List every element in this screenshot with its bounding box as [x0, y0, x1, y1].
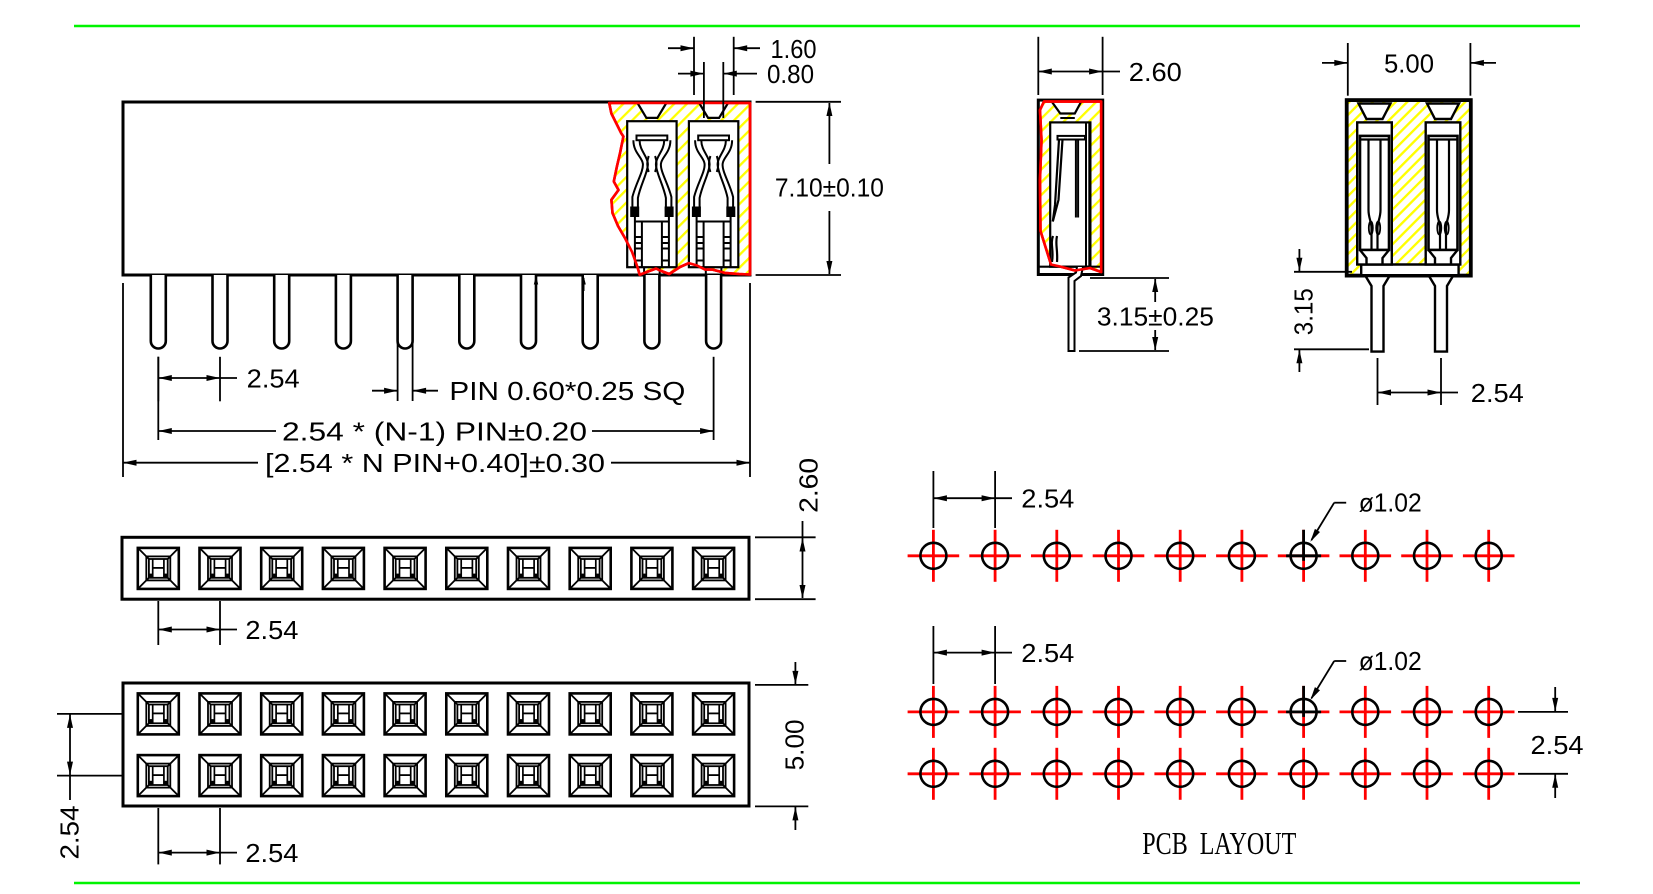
- contact insert row 1 col 2 (double row): [200, 693, 241, 734]
- contact insert row 1 col 8 (double row): [570, 693, 611, 734]
- contact cavity of pin 9 (section): [627, 103, 676, 275]
- single row housing bottom view: [122, 537, 749, 599]
- contact insert row 1 col 1 (double row): [138, 693, 179, 734]
- PCB hole 7 (single row): [1278, 530, 1330, 582]
- dim overall length extension lines: [122, 283, 124, 477]
- PCB hole row 1 col 8 (double row): [1340, 686, 1392, 738]
- green top border line: [74, 25, 1580, 28]
- contact insert row 1 col 3 (double row): [261, 693, 302, 734]
- svg-text:2.54 * (N-1) PIN±0.20: 2.54 * (N-1) PIN±0.20: [282, 416, 587, 446]
- PCB hole 9 (single row): [1401, 530, 1453, 582]
- contact insert row 2 col 4 (double row): [323, 755, 364, 796]
- dim 2.54 hole pitch extension lines (double row): [932, 626, 934, 684]
- dim 2.54 row spacing (double row): [1554, 687, 1556, 711]
- pin 1 (front view): [151, 275, 166, 349]
- crush rib arrow left: [535, 278, 537, 291]
- svg-text:3.15: 3.15: [1289, 288, 1319, 335]
- section cut hatched region: [609, 103, 750, 275]
- dim 5.00 extension lines: [755, 684, 808, 686]
- end view contact cavity 2: [1426, 104, 1461, 265]
- PCB hole 2 (single row): [969, 530, 1021, 582]
- dim 2.60 extension lines (side): [1037, 37, 1039, 95]
- contact insert 5 (single row): [385, 548, 426, 589]
- dim 7.10±0.10: [828, 103, 830, 164]
- side view contact: [1058, 136, 1086, 140]
- dim 2.54 hole pitch extension lines (single row): [932, 471, 934, 528]
- green bottom border line: [74, 882, 1580, 885]
- PCB hole row 1 col 4 (double row): [1093, 686, 1145, 738]
- dim 3.15 pin length (end view): [1298, 249, 1300, 271]
- svg-text:ø1.02: ø1.02: [1359, 488, 1422, 518]
- contact insert row 2 col 9 (double row): [631, 755, 672, 796]
- contact insert 7 (single row): [508, 548, 549, 589]
- housing body side view: [1038, 100, 1102, 274]
- dim 2.54 pin pitch: [158, 377, 237, 379]
- contact insert row 2 col 3 (double row): [261, 755, 302, 796]
- contact insert row 2 col 8 (double row): [570, 755, 611, 796]
- PCB hole row 2 col 4 (double row): [1093, 748, 1145, 800]
- pin 5 (front view): [398, 275, 413, 349]
- contact insert 10 (single row): [693, 548, 734, 589]
- contact cavity of pin 10 (section): [689, 103, 738, 275]
- dim 2.54 double row pitch extension lines: [157, 808, 159, 864]
- svg-text:7.10±0.10: 7.10±0.10: [775, 172, 884, 202]
- dim 1.60 extension lines: [693, 37, 695, 95]
- contact insert row 1 col 5 (double row): [385, 693, 426, 734]
- PCB hole 1 (single row): [908, 530, 960, 582]
- pin 2 (front view): [213, 275, 228, 349]
- housing body front view: [123, 102, 750, 275]
- dim 2.54 row spacing: [69, 714, 71, 800]
- PCB hole row 2 col 9 (double row): [1401, 748, 1453, 800]
- dim 5.00 body width (end view): [1322, 62, 1348, 64]
- double row housing bottom view: [123, 683, 749, 806]
- svg-text:2.60: 2.60: [1129, 57, 1182, 87]
- dim 2.54 pin spacing (end view): [1378, 392, 1459, 394]
- svg-text:5.00: 5.00: [779, 719, 809, 770]
- contact insert row 2 col 5 (double row): [385, 755, 426, 796]
- PCB hole row 1 col 5 (double row): [1154, 686, 1206, 738]
- pin 8 (front view): [583, 275, 598, 349]
- PCB hole row 2 col 2 (double row): [969, 748, 1021, 800]
- dim [2.54*N PIN+0.40]±0.30: [123, 462, 258, 464]
- PCB hole row 2 col 7 (double row): [1278, 748, 1330, 800]
- svg-text:2.54: 2.54: [245, 838, 298, 868]
- svg-text:3.15±0.25: 3.15±0.25: [1097, 301, 1214, 331]
- dim 2.54 pin pitch extension lines: [157, 357, 159, 402]
- pin 4 (front view): [336, 275, 351, 349]
- contact insert row 1 col 7 (double row): [508, 693, 549, 734]
- PCB hole 4 (single row): [1093, 530, 1145, 582]
- contact insert row 1 col 4 (double row): [323, 693, 364, 734]
- svg-text:PIN 0.60*0.25 SQ: PIN 0.60*0.25 SQ: [449, 376, 685, 406]
- contact insert row 2 col 6 (double row): [446, 755, 487, 796]
- side view entry funnel: [1052, 103, 1081, 114]
- PCB hole row 1 col 9 (double row): [1401, 686, 1453, 738]
- dim 2.60 extension lines: [755, 536, 816, 538]
- pin 3 (front view): [274, 275, 289, 349]
- dim 2.54*(N-1) PIN extension lines: [157, 357, 159, 440]
- dim 7.10±0.10 extension lines: [756, 101, 841, 103]
- side view solder pin: [1069, 267, 1084, 351]
- dim 3.15 extension lines (end view): [1294, 271, 1352, 273]
- svg-text:2.54: 2.54: [55, 806, 85, 860]
- PCB hole row 1 col 10 (double row): [1463, 686, 1515, 738]
- dim PIN 0.60*0.25 SQ: [372, 390, 398, 392]
- PCB hole row 1 col 3 (double row): [1031, 686, 1083, 738]
- dim 2.60 row width: [802, 521, 804, 598]
- dim 3.15±0.25 extension lines: [1090, 277, 1169, 279]
- svg-text:2.54: 2.54: [1531, 730, 1584, 760]
- contact insert row 2 col 10 (double row): [693, 755, 734, 796]
- dim 2.54 row spacing extension lines (double row): [1518, 711, 1568, 713]
- dim 2.54 hole pitch (single row): [933, 497, 1012, 499]
- dim 5.00 extension lines (end view): [1347, 43, 1349, 96]
- svg-text:0.80: 0.80: [767, 59, 814, 89]
- svg-text:2.54: 2.54: [1021, 484, 1074, 514]
- contact insert 8 (single row): [570, 548, 611, 589]
- PCB hole row 1 col 2 (double row): [969, 686, 1021, 738]
- svg-text:PCB LAYOUT: PCB LAYOUT: [1142, 825, 1296, 861]
- side view red cut boundary (overlay): [1040, 102, 1101, 272]
- end view body (full section): [1347, 100, 1471, 276]
- hole diameter leader (single row): [1334, 502, 1346, 504]
- pin 7 (front view): [521, 275, 536, 349]
- dim 1.60: [668, 47, 694, 49]
- contact insert 4 (single row): [323, 548, 364, 589]
- dim 5.00 body width: [794, 662, 796, 684]
- svg-text:[2.54 * N PIN+0.40]±0.30: [2.54 * N PIN+0.40]±0.30: [265, 448, 605, 478]
- pin 6 (front view): [459, 275, 474, 349]
- PCB hole 10 (single row): [1463, 530, 1515, 582]
- svg-text:2.54: 2.54: [1021, 638, 1074, 668]
- side view section hatched region: [1040, 102, 1101, 272]
- crush rib arrow right: [583, 278, 585, 291]
- pin 9 (front view): [644, 275, 659, 349]
- contact insert row 1 col 9 (double row): [631, 693, 672, 734]
- end view pin 2: [1429, 276, 1453, 352]
- PCB hole row 1 col 7 (double row): [1278, 686, 1330, 738]
- contact insert row 1 col 6 (double row): [446, 693, 487, 734]
- dim 2.54 extension lines (end view): [1377, 358, 1379, 405]
- dim 2.54 hole pitch (double row): [933, 652, 1012, 654]
- dim 0.80: [678, 73, 704, 75]
- contact insert row 2 col 2 (double row): [200, 755, 241, 796]
- PCB hole row 2 col 5 (double row): [1154, 748, 1206, 800]
- PCB hole 5 (single row): [1154, 530, 1206, 582]
- PCB hole 3 (single row): [1031, 530, 1083, 582]
- PCB hole row 2 col 1 (double row): [908, 748, 960, 800]
- svg-text:2.54: 2.54: [247, 364, 300, 394]
- contact insert row 2 col 7 (double row): [508, 755, 549, 796]
- dim 2.54 double row pitch: [158, 852, 237, 854]
- contact insert 2 (single row): [200, 548, 241, 589]
- side view contact cavity: [1050, 122, 1090, 266]
- PCB hole row 2 col 10 (double row): [1463, 748, 1515, 800]
- dim 2.54*(N-1) PIN±0.20: [158, 430, 276, 432]
- contact insert 3 (single row): [261, 548, 302, 589]
- contact insert 1 (single row): [138, 548, 179, 589]
- dim PIN 0.60*0.25 SQ extension lines: [397, 274, 399, 401]
- PCB hole row 2 col 8 (double row): [1340, 748, 1392, 800]
- svg-text:5.00: 5.00: [1384, 48, 1434, 78]
- PCB hole row 2 col 6 (double row): [1216, 748, 1268, 800]
- end view contact cavity 1: [1357, 104, 1392, 265]
- svg-text:2.54: 2.54: [1471, 378, 1524, 408]
- dim 2.60 body thickness: [1038, 71, 1120, 73]
- PCB hole row 1 col 6 (double row): [1216, 686, 1268, 738]
- dim 2.54 single row extension lines: [157, 601, 159, 645]
- PCB hole row 2 col 3 (double row): [1031, 748, 1083, 800]
- pin 10 (front view): [706, 275, 721, 349]
- end view bottom recess: [1361, 265, 1458, 275]
- dim 2.54 single row: [158, 629, 237, 631]
- section cut red boundary (overlay): [609, 103, 750, 275]
- PCB hole 6 (single row): [1216, 530, 1268, 582]
- contact insert row 1 col 10 (double row): [693, 693, 734, 734]
- PCB hole 8 (single row): [1340, 530, 1392, 582]
- dim 2.54 row spacing extension lines: [57, 713, 123, 715]
- svg-text:2.54: 2.54: [245, 615, 298, 645]
- svg-text:2.60: 2.60: [794, 458, 824, 513]
- dim 3.15±0.25 pin length: [1154, 279, 1156, 302]
- dim 0.80 extension lines: [703, 62, 705, 118]
- side view base line: [1038, 266, 1102, 268]
- end view pin 1: [1366, 276, 1390, 352]
- contact insert 6 (single row): [446, 548, 487, 589]
- svg-text:ø1.02: ø1.02: [1359, 646, 1422, 676]
- contact insert 9 (single row): [631, 548, 672, 589]
- hole diameter leader (double row): [1334, 660, 1346, 662]
- PCB hole row 1 col 1 (double row): [908, 686, 960, 738]
- contact insert row 2 col 1 (double row): [138, 755, 179, 796]
